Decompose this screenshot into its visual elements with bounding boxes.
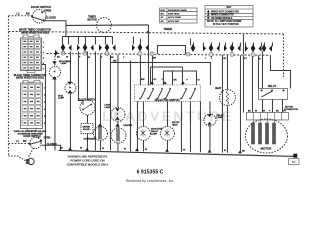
wire: dashed feed to door switch 1	[8, 15, 32, 17]
wire: top solid bus L1	[66, 24, 149, 27]
wire: dashed to plug	[28, 148, 33, 157]
svg-text:LAMP: LAMP	[61, 62, 68, 65]
door switch S2	[30, 137, 41, 148]
svg-text:BR: BR	[153, 57, 156, 59]
bottom-right code box	[289, 159, 300, 165]
wire: x122 rinse chain	[117, 54, 119, 107]
motor M2	[245, 119, 287, 153]
wire: connector to motor windings	[252, 120, 254, 124]
contact dots door switch 1	[29, 11, 150, 145]
wire: left dashed power-cord vertical	[7, 16, 9, 156]
lamp L4 boost heat	[160, 126, 174, 140]
svg-text:OR: OR	[223, 58, 227, 60]
svg-text:(WIRE INSERTION SIDE): (WIRE INSERTION SIDE)	[16, 77, 44, 80]
wire: x152	[151, 54, 153, 84]
selector switch box	[134, 85, 200, 102]
svg-text:W: W	[124, 148, 126, 150]
svg-text:W: W	[145, 149, 147, 151]
svg-text:LAMP: LAMP	[151, 133, 158, 136]
svg-text:HEAT: HEAT	[215, 87, 222, 90]
white connector pin marks	[23, 41, 38, 69]
svg-text:BK: BK	[60, 147, 63, 149]
wire: group bus	[62, 35, 112, 37]
svg-text:BK: BK	[248, 110, 251, 112]
svg-text:CLOSED: CLOSED	[47, 143, 57, 146]
connector symbol row: triangles and diamonds	[52, 44, 297, 158]
bus end square	[293, 154, 297, 158]
svg-text:BU: BU	[276, 110, 279, 112]
svg-text:LEADVENTURE: LEADVENTURE	[102, 108, 233, 124]
svg-text:EXTENDED WASH: EXTENDED WASH	[168, 9, 188, 12]
wire: elbow right to relay	[270, 55, 290, 88]
svg-text:LAMP: LAMP	[58, 97, 65, 100]
svg-text:TIMER: TIMER	[164, 27, 173, 31]
wire: x262	[261, 51, 263, 88]
bus triangles bottom	[68, 148, 72, 151]
lamp L2	[65, 82, 76, 93]
svg-text:W: W	[255, 110, 257, 112]
svg-text:OPEN: OPEN	[44, 137, 51, 140]
svg-text:(WIRE INSERTION SIDE): (WIRE INSERTION SIDE)	[21, 31, 49, 34]
svg-text:SANI HEAT: SANI HEAT	[168, 13, 180, 16]
svg-text:MOTOR: MOTOR	[261, 147, 273, 151]
wire: x243 relay feed	[242, 34, 244, 54]
wire: dashed bus 2	[46, 53, 270, 55]
svg-text:RELAY: RELAY	[268, 85, 277, 88]
wire: door switch 2 to bus	[41, 145, 60, 150]
wire: x133 drop	[132, 36, 134, 44]
wire: door switch to top bus	[44, 21, 66, 37]
svg-text:IN THE 'OFF' POSITION: IN THE 'OFF' POSITION	[213, 24, 239, 26]
svg-text:W: W	[224, 150, 226, 152]
svg-text:Rendered by LeadVenture, Inc.: Rendered by LeadVenture, Inc.	[126, 179, 174, 183]
wire: x78	[78, 51, 83, 104]
float switch	[80, 100, 95, 115]
svg-text:W: W	[183, 149, 185, 151]
svg-text:BK: BK	[26, 11, 30, 15]
wire: x240	[239, 55, 241, 153]
relay box	[258, 88, 287, 99]
svg-text:VALVE: VALVE	[83, 128, 90, 131]
svg-text:W: W	[102, 148, 104, 150]
svg-text:OPEN: OPEN	[44, 9, 51, 13]
KEY legend symbols	[207, 10, 210, 19]
motor connector strip	[246, 112, 288, 120]
wire: x130	[129, 60, 131, 151]
svg-text:BW: BW	[113, 60, 116, 62]
motor winding hatch	[252, 126, 276, 144]
heater element	[226, 90, 229, 104]
svg-text:BK: BK	[23, 140, 27, 143]
wire: x207 delay lamp chain	[209, 101, 211, 114]
wire: x70 chain	[69, 51, 71, 82]
lamp L3 moisture delay	[136, 126, 150, 140]
rinse dispenser	[111, 107, 125, 121]
svg-text:AD: AD	[161, 20, 165, 23]
water valve coil box	[81, 123, 93, 133]
wire: timer feed vertical	[147, 25, 149, 85]
svg-text:W: W	[88, 57, 90, 59]
svg-text:ACCU TEMP: ACCU TEMP	[168, 16, 182, 19]
wire code table	[160, 8, 198, 23]
wire: bracket over bus2	[157, 45, 185, 54]
svg-text:6 915355 C: 6 915355 C	[137, 169, 164, 175]
timer motor M1	[97, 18, 112, 33]
svg-text:W: W	[66, 57, 68, 59]
svg-text:LAMP: LAMP	[105, 106, 111, 109]
selector levers	[140, 89, 145, 99]
wire: lamp chain x56	[54, 53, 56, 66]
svg-text:BK: BK	[242, 150, 245, 152]
motor windings	[252, 123, 276, 144]
svg-text:DOOR SWITCH: DOOR SWITCH	[31, 5, 51, 9]
wire: stubs above connector symbols right	[192, 42, 194, 46]
svg-text:BK: BK	[57, 57, 60, 59]
caption	[67, 155, 109, 167]
wire: elbow y70.5	[163, 71, 196, 85]
svg-text:SELECTOR SWITCH: SELECTOR SWITCH	[154, 98, 179, 102]
white connector cells	[22, 39, 40, 70]
svg-text:NOTE: ALL SWITCHES SHOWN: NOTE: ALL SWITCHES SHOWN	[207, 20, 242, 23]
door switch S1	[32, 9, 46, 23]
white timer connector	[21, 35, 42, 73]
wire: dashed feed door switch 2	[8, 142, 30, 144]
wire: drops from group bus	[61, 36, 63, 44]
svg-text:BH: BH	[161, 14, 165, 16]
svg-text:5M: 5M	[292, 160, 296, 164]
svg-text:HEAT: HEAT	[172, 124, 178, 127]
svg-text:CONNECTOR: CONNECTOR	[284, 109, 298, 111]
float switch and lamp contact dots	[54, 71, 119, 115]
wire: dashed right vertical (power cord)	[282, 34, 284, 78]
wire: selector drops	[136, 101, 138, 151]
svg-text:KEY: KEY	[227, 7, 232, 9]
wire: x100 dispenser chain	[99, 54, 101, 126]
svg-text:MOTOR: MOTOR	[87, 18, 96, 21]
svg-text:WIRES CONNECTED: WIRES CONNECTED	[211, 15, 234, 17]
svg-text:ON SOME MODELS: ON SOME MODELS	[211, 18, 233, 20]
lamp L1 bulkhead	[49, 66, 60, 77]
wire: heater chain x227	[226, 55, 228, 89]
svg-text:WIRES NOT CONNECTED: WIRES NOT CONNECTED	[211, 11, 240, 13]
KEY legend text	[207, 7, 242, 26]
junction numbers	[62, 51, 255, 56]
wire: x258 relay	[257, 55, 259, 88]
wire: x252	[251, 55, 253, 112]
wire code table text	[161, 9, 188, 23]
svg-text:BW: BW	[110, 57, 113, 59]
svg-text:DOOR SWITCH: DOOR SWITCH	[23, 135, 41, 138]
svg-text:W: W	[198, 80, 200, 82]
float switch internals	[83, 105, 91, 110]
wire: x181 x190 x200	[180, 101, 182, 152]
svg-text:BR: BR	[174, 79, 177, 81]
wire: vertical x45	[42, 64, 46, 150]
svg-text:BW: BW	[141, 79, 144, 81]
wire: x87 float switch chain	[86, 51, 88, 99]
svg-text:DISPENSER: DISPENSER	[83, 138, 96, 140]
svg-text:CLOSED: CLOSED	[45, 15, 56, 19]
lamp L5 delay	[204, 114, 216, 126]
lamp internals	[83, 105, 212, 142]
wire: x110 elbow	[110, 55, 210, 85]
wire: x140 drop to selector	[139, 38, 141, 44]
dispenser solenoid	[93, 126, 107, 140]
wire: x95	[94, 51, 96, 150]
svg-text:CONVERTIBLE MODELS ONLY: CONVERTIBLE MODELS ONLY	[67, 163, 109, 167]
KEY legend box	[205, 6, 253, 28]
svg-text:HEATER: HEATER	[124, 124, 133, 127]
selector terminals	[139, 88, 284, 100]
wire: x150 elbow	[150, 67, 182, 85]
dispenser coils	[99, 127, 102, 139]
power cord plug	[28, 158, 34, 164]
svg-text:LAMP: LAMP	[217, 116, 224, 119]
wire: x172	[171, 71, 173, 85]
heater HTR	[219, 89, 235, 105]
wire: x211 stub	[210, 54, 212, 58]
svg-text:W: W	[80, 148, 82, 150]
wire: dashed neutral bus top	[8, 31, 283, 34]
circled junction numbers on bus2	[61, 51, 255, 56]
black connector pin marks	[24, 87, 40, 124]
lamp chain triangles	[52, 61, 56, 64]
black connector cells	[22, 85, 41, 126]
wire: bottom neutral bus	[58, 150, 296, 156]
wire: x222	[221, 55, 223, 153]
wire: relay to motor connector	[261, 99, 263, 112]
svg-text:FLOAT SWITCH: FLOAT SWITCH	[78, 99, 96, 102]
black timer connector	[21, 81, 43, 131]
svg-text:OR: OR	[262, 110, 266, 112]
svg-text:ACCU DRY: ACCU DRY	[168, 20, 180, 23]
